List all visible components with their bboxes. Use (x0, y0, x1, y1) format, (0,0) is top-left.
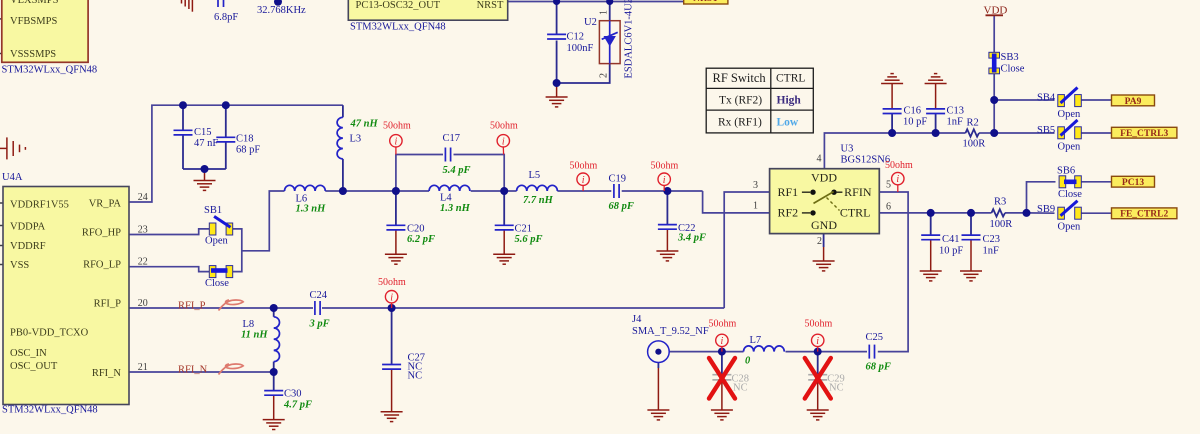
svg-text:NRST: NRST (477, 0, 504, 11)
svg-text:CTRL: CTRL (776, 73, 805, 85)
svg-text:RFO_HP: RFO_HP (82, 228, 121, 239)
svg-text:PC13: PC13 (1122, 178, 1144, 188)
svg-text:C23: C23 (983, 234, 1001, 245)
svg-text:24: 24 (138, 192, 148, 203)
svg-text:C30: C30 (284, 389, 302, 400)
svg-text:32.768KHz: 32.768KHz (257, 5, 306, 16)
svg-text:Tx (RF2): Tx (RF2) (719, 95, 762, 107)
svg-text:Rx (RF1): Rx (RF1) (718, 117, 762, 129)
svg-text:47 nH: 47 nH (350, 119, 379, 130)
svg-text:3 pF: 3 pF (309, 319, 330, 330)
svg-text:4: 4 (817, 154, 822, 165)
svg-text:1: 1 (599, 10, 610, 15)
svg-text:RFI_P: RFI_P (178, 300, 206, 311)
svg-text:U2: U2 (584, 17, 597, 28)
svg-text:2: 2 (817, 236, 822, 247)
svg-text:4.7 pF: 4.7 pF (283, 400, 312, 411)
svg-text:C18: C18 (236, 134, 254, 145)
svg-text:50ohm: 50ohm (885, 160, 913, 171)
svg-text:NC: NC (829, 383, 844, 394)
svg-text:50ohm: 50ohm (651, 161, 679, 172)
svg-text:100R: 100R (963, 139, 986, 150)
svg-text:VSS: VSS (10, 260, 29, 271)
svg-text:6.2 pF: 6.2 pF (407, 234, 435, 245)
svg-text:1nF: 1nF (983, 246, 1000, 257)
svg-text:L8: L8 (243, 319, 255, 330)
svg-text:CTRL: CTRL (840, 206, 871, 220)
svg-text:BGS12SN6: BGS12SN6 (841, 155, 891, 166)
svg-text:Low: Low (777, 117, 799, 129)
svg-text:RFO_LP: RFO_LP (83, 260, 121, 271)
svg-text:10 pF: 10 pF (903, 117, 927, 128)
svg-text:RF1: RF1 (778, 185, 799, 199)
svg-text:C41: C41 (942, 234, 960, 245)
svg-text:47 nF: 47 nF (194, 138, 218, 149)
svg-text:11 nH: 11 nH (241, 330, 268, 341)
svg-text:50ohm: 50ohm (805, 319, 833, 330)
svg-text:RFIN: RFIN (844, 185, 872, 199)
svg-text:L7: L7 (750, 335, 762, 346)
svg-text:50ohm: 50ohm (570, 161, 598, 172)
svg-text:5: 5 (886, 180, 891, 191)
svg-text:FE_CTRL2: FE_CTRL2 (1120, 210, 1168, 220)
svg-text:VLXSMPS: VLXSMPS (10, 0, 59, 6)
svg-text:3: 3 (753, 180, 758, 191)
svg-text:SB4: SB4 (1037, 92, 1056, 103)
svg-text:NRST: NRST (693, 0, 719, 4)
svg-text:68 pF: 68 pF (866, 362, 891, 373)
svg-text:STM32WLxx_QFN48: STM32WLxx_QFN48 (2, 65, 98, 76)
svg-text:SMA_T_9.52_NF: SMA_T_9.52_NF (632, 326, 709, 337)
svg-text:68 pF: 68 pF (609, 201, 634, 212)
svg-text:SB3: SB3 (1001, 52, 1019, 63)
svg-text:C17: C17 (443, 133, 461, 144)
svg-text:R2: R2 (967, 118, 979, 129)
svg-text:STM32WLxx_QFN48: STM32WLxx_QFN48 (350, 22, 446, 33)
svg-text:1.3 nH: 1.3 nH (296, 204, 327, 215)
svg-text:C24: C24 (310, 290, 328, 301)
svg-text:J4: J4 (632, 314, 642, 325)
svg-text:23: 23 (138, 225, 148, 236)
svg-text:22: 22 (138, 257, 148, 268)
svg-text:RF Switch: RF Switch (713, 71, 767, 85)
svg-text:C19: C19 (609, 174, 627, 185)
svg-text:VSSSMPS: VSSSMPS (10, 49, 56, 60)
svg-text:1nF: 1nF (947, 117, 964, 128)
svg-text:SB9: SB9 (1037, 204, 1055, 215)
svg-text:PC13-OSC32_OUT: PC13-OSC32_OUT (356, 0, 441, 11)
svg-text:50ohm: 50ohm (709, 319, 737, 330)
svg-text:OSC_IN: OSC_IN (10, 348, 47, 359)
svg-text:RF2: RF2 (778, 206, 799, 220)
svg-text:50ohm: 50ohm (490, 121, 518, 132)
svg-text:U3: U3 (841, 144, 854, 155)
svg-text:VR_PA: VR_PA (89, 199, 122, 210)
svg-text:C25: C25 (866, 332, 884, 343)
svg-text:0: 0 (745, 356, 751, 367)
svg-text:50ohm: 50ohm (378, 277, 406, 288)
svg-text:C16: C16 (904, 106, 922, 117)
svg-text:50ohm: 50ohm (383, 121, 411, 132)
svg-text:20: 20 (138, 298, 148, 309)
svg-text:C20: C20 (407, 224, 425, 235)
svg-text:5.6 pF: 5.6 pF (515, 234, 543, 245)
svg-text:PB0-VDD_TCXO: PB0-VDD_TCXO (10, 328, 89, 339)
svg-text:C15: C15 (194, 127, 212, 138)
svg-text:RFI_N: RFI_N (92, 368, 122, 379)
svg-text:Open: Open (1058, 109, 1081, 120)
svg-text:PA9: PA9 (1125, 97, 1142, 107)
svg-text:High: High (777, 95, 802, 107)
svg-text:L4: L4 (440, 193, 452, 204)
svg-text:21: 21 (138, 362, 148, 373)
svg-text:SB6: SB6 (1057, 166, 1075, 177)
svg-text:Open: Open (205, 236, 228, 247)
svg-text:NC: NC (733, 383, 748, 394)
svg-text:GND: GND (811, 218, 837, 232)
svg-text:68 pF: 68 pF (236, 145, 260, 156)
svg-text:STM32WLxx_QFN48: STM32WLxx_QFN48 (2, 405, 98, 416)
svg-text:R3: R3 (994, 196, 1006, 207)
svg-text:VFBSMPS: VFBSMPS (10, 16, 57, 27)
svg-text:RFI_N: RFI_N (178, 364, 208, 375)
svg-text:VDDRF: VDDRF (10, 241, 46, 252)
svg-text:L3: L3 (350, 134, 362, 145)
svg-text:FE_CTRL3: FE_CTRL3 (1120, 129, 1168, 139)
svg-text:C12: C12 (567, 32, 585, 43)
svg-text:6.8pF: 6.8pF (214, 12, 238, 23)
svg-text:3.4 pF: 3.4 pF (677, 233, 706, 244)
svg-text:SB1: SB1 (204, 205, 222, 216)
svg-text:C13: C13 (947, 106, 965, 117)
svg-text:7.7 nH: 7.7 nH (523, 195, 554, 206)
svg-text:Close: Close (1058, 189, 1082, 200)
svg-text:Close: Close (1001, 64, 1025, 75)
svg-text:C21: C21 (515, 224, 533, 235)
svg-text:5.4 pF: 5.4 pF (443, 165, 471, 176)
svg-text:L5: L5 (529, 170, 541, 181)
svg-text:1: 1 (753, 201, 758, 212)
svg-text:Close: Close (205, 278, 229, 289)
svg-text:Open: Open (1058, 222, 1081, 233)
svg-text:Open: Open (1058, 142, 1081, 153)
svg-text:VDDRF1V55: VDDRF1V55 (10, 200, 69, 211)
svg-text:RFI_P: RFI_P (94, 299, 122, 310)
svg-text:6: 6 (886, 202, 891, 213)
svg-text:NC: NC (408, 371, 423, 382)
svg-text:OSC_OUT: OSC_OUT (10, 361, 58, 372)
svg-text:100nF: 100nF (567, 43, 594, 54)
svg-text:VDD: VDD (811, 171, 837, 185)
svg-text:U4A: U4A (2, 172, 23, 183)
svg-text:2: 2 (599, 73, 610, 78)
svg-text:SB5: SB5 (1037, 125, 1055, 136)
svg-text:1.3 nH: 1.3 nH (440, 203, 471, 214)
svg-text:100R: 100R (990, 219, 1013, 230)
svg-text:10 pF: 10 pF (939, 246, 963, 257)
svg-text:VDDPA: VDDPA (10, 222, 46, 233)
svg-text:ESDALC6V1-4U2: ESDALC6V1-4U2 (624, 0, 635, 79)
